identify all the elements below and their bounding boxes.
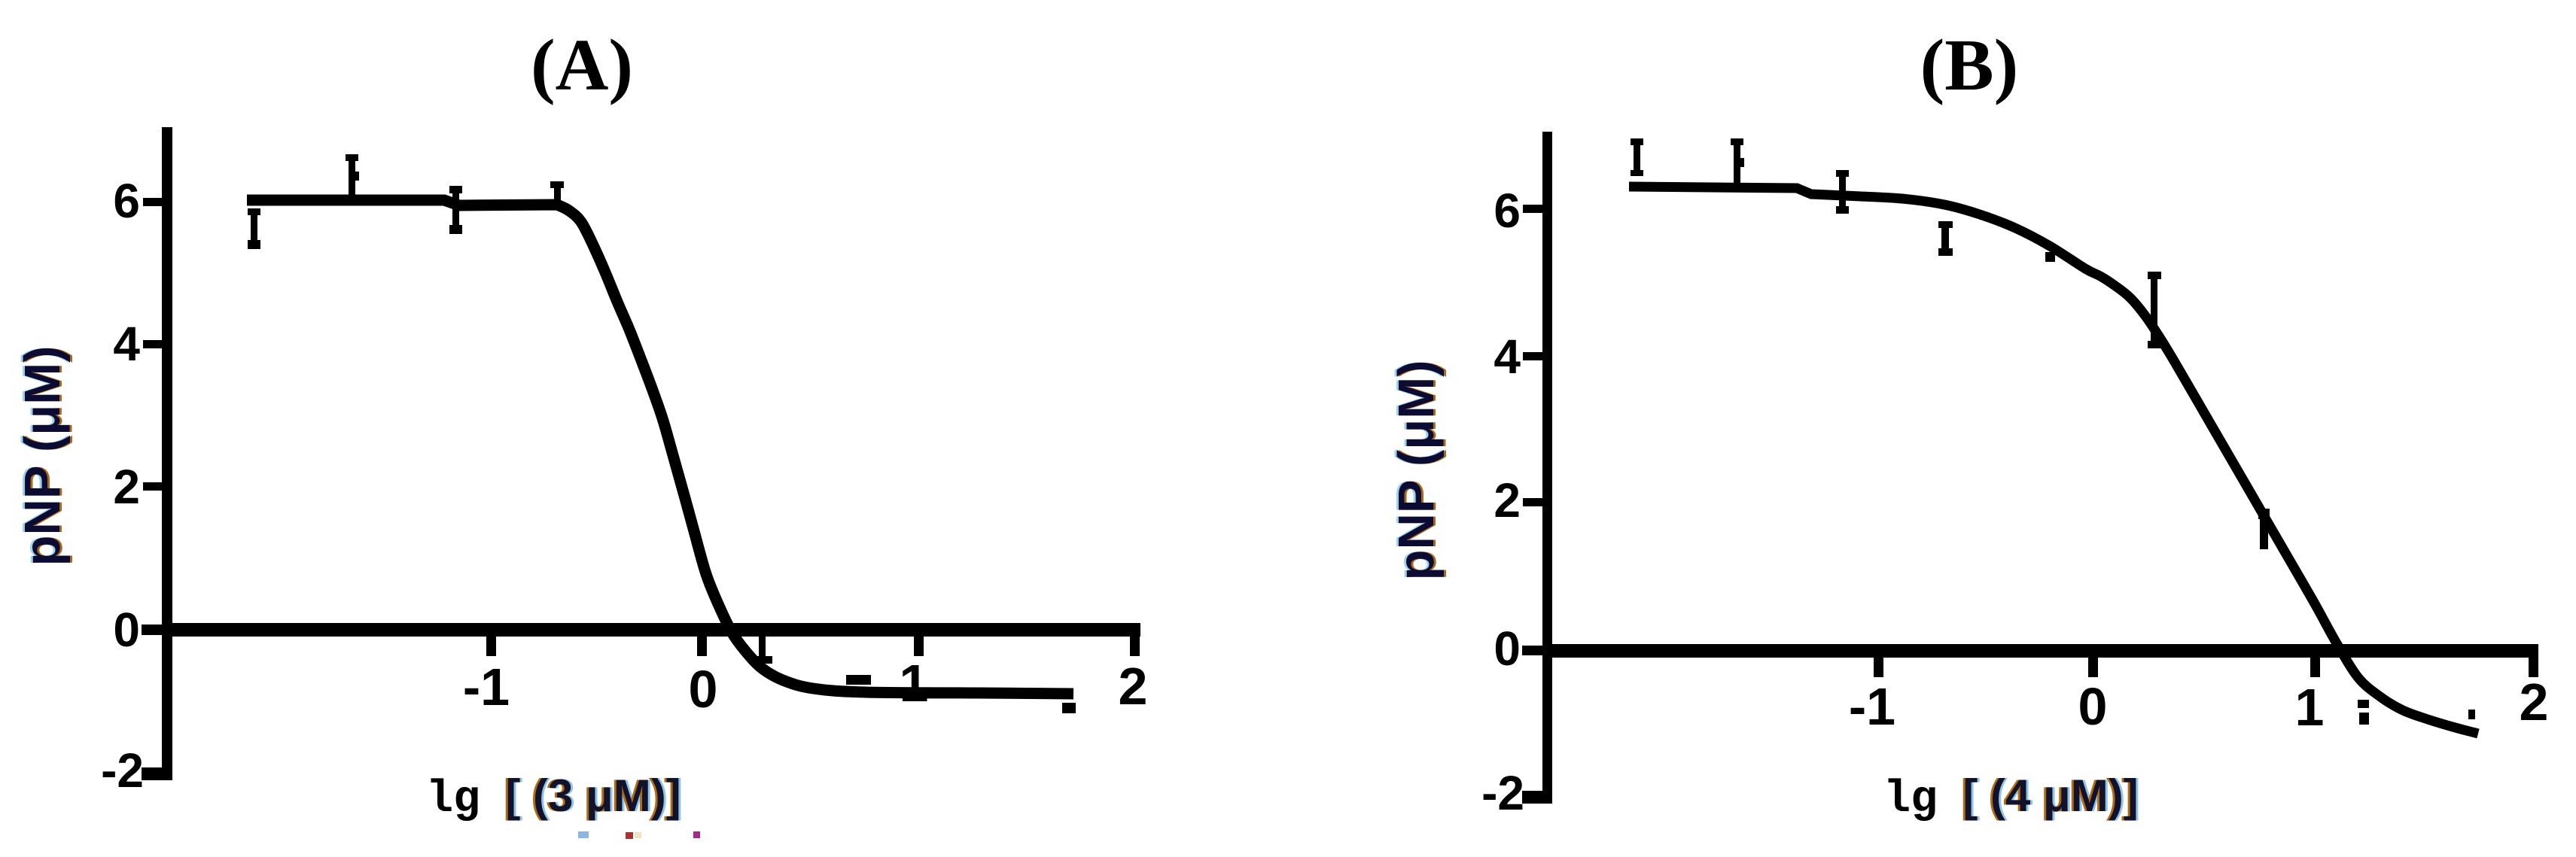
svg-text:4: 4 [1494,330,1521,384]
svg-text:1: 1 [900,654,929,713]
svg-text:0: 0 [1494,621,1521,676]
svg-text:-1: -1 [463,658,510,716]
svg-text:2: 2 [1119,657,1148,716]
svg-text:2: 2 [2520,673,2549,731]
svg-text:0: 0 [2078,677,2108,736]
svg-text:(A): (A) [531,25,633,106]
svg-text:-2: -2 [1481,766,1524,820]
svg-text:0: 0 [689,660,718,719]
svg-text:6: 6 [113,174,140,228]
svg-text:-1: -1 [1849,677,1895,736]
svg-text:pNP (μM): pNP (μM) [1388,360,1445,581]
svg-text:lg [ (3 μM)]: lg [ (3 μM)] [426,770,681,825]
svg-text:4: 4 [113,317,140,371]
svg-text:lg [ (4 μM)]: lg [ (4 μM)] [1883,770,2139,825]
svg-text:(B): (B) [1920,25,2019,106]
svg-text:1: 1 [2295,678,2325,737]
svg-text:0: 0 [113,603,140,657]
svg-text:-2: -2 [101,743,144,798]
svg-text:2: 2 [1494,473,1521,527]
svg-text:6: 6 [1494,184,1521,238]
svg-text:pNP (μM): pNP (μM) [14,346,71,567]
svg-text:2: 2 [113,460,140,514]
